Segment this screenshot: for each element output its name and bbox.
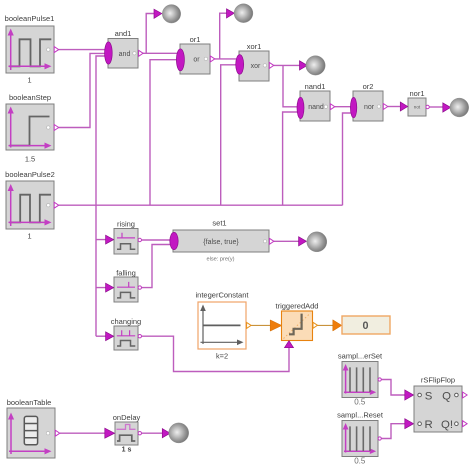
svg-text:falling: falling [116,269,136,278]
set1 [170,219,269,263]
wire xor1.y branch -> nand1.u[1] [283,65,298,106]
triggeredAdd trigger arrow [285,341,294,348]
wire booleanPulse2.y main run [59,204,343,206]
svg-text:xor1: xor1 [247,42,262,51]
svg-text:rSFlipFlop: rSFlipFlop [421,376,455,385]
wire onDelay.y -> sphere 6 [142,432,163,434]
svg-text:onDelay: onDelay [113,413,141,422]
wire booleanPulse2.y -> or1.u[2] [150,60,177,206]
nor1 [408,89,429,116]
wire booleanPulse2.y -> nand1.u[2] [283,112,298,205]
rising [114,220,142,255]
svg-text:{false, true}: {false, true} [203,239,239,246]
svg-text:0.5: 0.5 [354,456,366,465]
wire xor1.y -> sphere 3 [274,64,300,66]
falling [114,269,142,303]
svg-text:booleanPulse2: booleanPulse2 [5,170,55,179]
svg-text:Q: Q [442,390,451,402]
wire integerConstant.y -> triggeredAdd.u [251,324,270,326]
svg-text:rising: rising [117,220,135,229]
showValue sphere 5 (nor1.y) [443,98,469,117]
and1 [105,29,138,68]
wire booleanPulse2.y -> xor1.u[2] [221,65,237,205]
onDelay [113,413,142,454]
showValue sphere 2 (or1.y) [227,4,253,23]
wire booleanPulse2 riser -> changing input [96,335,106,337]
rSFlipFlop output port Q! [463,421,468,427]
svg-text:set1: set1 [212,219,226,228]
onDelay input port arrow [105,428,115,438]
triggeredAdd output port [313,322,318,328]
wire nand1.y -> or2.u[1] [335,106,351,108]
changing input port arrow [106,332,114,341]
integerConstant output port [247,322,252,328]
svg-text:S: S [425,390,433,402]
showValue sphere 4 (set1.y) [299,232,327,252]
booleanPulse1 output port [54,47,59,53]
wire sampleTriggerSet.y -> rSFlipFlop.S [381,380,405,396]
wire booleanPulse2.y -> and1.u[3] and edge blocks riser [96,56,106,336]
wire or2.y -> nor1 input [388,106,401,108]
showValue sphere 1 (and1.y) [154,5,181,23]
wire rising.y -> set1.u[1] [142,239,171,241]
svg-text:else: pre(y): else: pre(y) [207,257,235,263]
booleanTable [7,398,55,458]
wire or1.y -> xor1.u[1] [215,58,237,60]
svg-text:triggeredAdd: triggeredAdd [276,302,319,311]
wire falling.y -> set1.u[2] [142,245,171,288]
or1 output port [210,56,215,62]
svg-text:k=2: k=2 [216,352,228,361]
svg-text:booleanStep: booleanStep [9,93,51,102]
svg-text:1: 1 [27,75,31,84]
showValue sphere 3 (xor1.y) [300,56,326,75]
triggeredAdd [276,302,319,341]
svg-text:Q!: Q! [441,419,453,431]
svg-text:sampl...Reset: sampl...Reset [337,411,384,420]
nor1 input port arrow [400,102,407,111]
svg-text:1: 1 [27,232,31,241]
booleanStep output port [54,125,59,131]
svg-text:0.5: 0.5 [354,398,366,407]
svg-text:or: or [193,57,200,64]
wire booleanTable.y -> onDelay input [60,432,105,434]
sampleTriggerReset [337,411,384,466]
svg-text:nor: nor [364,104,375,111]
wire triggeredAdd.y -> showValue "0" [317,324,333,326]
nand1 output port [330,104,335,110]
wire booleanPulse2.y -> or2.u[2] [343,113,351,205]
booleanPulse1 [5,14,55,84]
showValue "0" display arrow [333,320,342,331]
svg-text:sampl...erSet: sampl...erSet [338,352,383,361]
svg-text:or1: or1 [190,35,201,44]
svg-text:1 s: 1 s [122,447,132,454]
booleanPulse2 [5,170,55,241]
svg-text:xor: xor [251,63,261,70]
rSFlipFlop input arrow R [405,419,414,429]
booleanStep [6,93,54,164]
xor1 output port [269,62,274,68]
showValue "0" display [342,316,390,334]
rSFlipFlop output port Q [463,392,468,398]
showValue sphere 6 (onDelay.y) [162,423,188,443]
svg-text:1.5: 1.5 [25,155,35,164]
svg-text:integerConstant: integerConstant [196,291,250,300]
svg-text:booleanPulse1: booleanPulse1 [5,14,55,23]
or2 output port [383,104,388,110]
svg-text:not: not [414,105,421,110]
wire or1.y branch -> showValue sphere 2 [220,13,227,59]
set1 output port [269,238,274,244]
wire set1.y -> sphere 4 [274,240,299,242]
rSFlipFlop [414,376,462,433]
svg-text:and1: and1 [115,29,132,38]
and1 output port [139,50,144,56]
wire booleanStep.y -> and1.u[2] [59,53,106,127]
booleanPulse2 output port [54,202,59,208]
falling input port arrow [106,283,114,292]
changing [111,317,142,350]
wire and1.y branch -> showValue sphere 1 [146,14,154,54]
svg-text:nand1: nand1 [305,82,326,91]
wire sampleTriggerReset.y -> rSFlipFlop.R [381,424,405,439]
wire changing.y -> triggeredAdd.trigger [142,336,290,371]
xor1 [236,42,269,81]
booleanTable output port [55,430,60,436]
or2 [350,82,383,121]
svg-text:nor1: nor1 [409,89,424,98]
sampleTriggerSet [338,352,383,407]
svg-text:and: and [119,51,131,58]
or1 [176,35,210,74]
svg-text:nand: nand [308,104,324,111]
svg-text:or2: or2 [363,82,374,91]
svg-text:booleanTable: booleanTable [7,398,52,407]
wire and1.y -> or1.u[1] [143,52,177,54]
rising input port arrow [106,235,114,244]
svg-text:changing: changing [111,317,141,326]
rSFlipFlop input arrow S [405,390,414,400]
integerConstant [196,291,250,361]
wire nor1.y -> sphere 5 [429,106,443,108]
svg-text:R: R [424,419,432,431]
triggeredAdd input arrow (orange) [270,320,282,331]
svg-text:0: 0 [362,320,368,332]
nand1 [297,82,330,121]
wire booleanPulse1.y -> and1.u[1] [59,49,106,51]
